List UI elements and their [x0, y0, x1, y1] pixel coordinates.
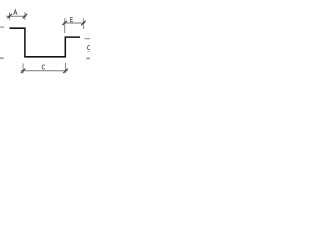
dimension E: label	[71, 18, 73, 22]
dimension C: dimension line	[21, 70, 68, 72]
dimension A: dimension line	[6, 15, 26, 17]
dimension A: oblique ticks	[7, 14, 11, 18]
dimension C: oblique ticks	[21, 69, 25, 73]
right edge: cut-off extension dash (top)	[85, 38, 90, 40]
dimension C: label	[42, 65, 45, 69]
technical drawing: hat profile cross-section with dimensions	[0, 0, 90, 90]
dimension E: oblique ticks	[63, 21, 67, 25]
right edge: cut-off extension dash (bottom)	[86, 57, 90, 59]
dimension C: extension lines	[22, 63, 24, 73]
left edge: cut-off extension dash (top)	[0, 26, 4, 28]
dimension A: label	[14, 10, 17, 15]
right edge: cut-off dimension label	[87, 46, 90, 50]
left edge: cut-off extension dash (bottom)	[0, 57, 4, 59]
right edge: faint dash	[87, 51, 90, 53]
dimension A: extension lines	[9, 12, 11, 20]
dimension E: extension lines	[64, 18, 66, 33]
dimension E: dimension line	[63, 22, 85, 24]
profile outline (hat channel)	[10, 28, 81, 57]
